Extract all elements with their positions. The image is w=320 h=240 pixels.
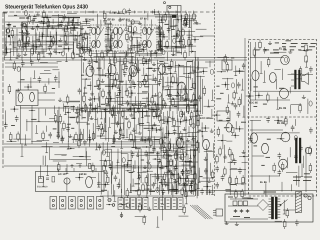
wire shielded cable right [197, 57, 199, 196]
junction (FM front end) [42, 36, 44, 38]
coil (bottom strip) [126, 203, 129, 208]
resistor (IF tubes row) [83, 94, 85, 97]
NTC block 3 [243, 201, 247, 206]
wire (output lower) [303, 156, 305, 168]
wire (mid gap) [224, 145, 226, 163]
winding ticks right [278, 198, 281, 200]
junction (preamp box inner) [79, 177, 81, 179]
resistor (converter) [164, 12, 166, 15]
wire (detector AF) [174, 61, 176, 72]
wire (AM det) [68, 108, 70, 141]
wire (FM top right) [47, 25, 80, 27]
value label (AM det) [144, 115, 150, 117]
wire (IF strip right) [158, 32, 164, 34]
value label (AM det) [144, 127, 150, 129]
wire (output upper) [289, 87, 291, 94]
wire (AF section) [143, 170, 153, 172]
value label (AF section) [129, 172, 134, 174]
wire (AM det) [103, 118, 105, 131]
ground (IF tubes row) [154, 93, 156, 96]
wire (AM det) [128, 139, 136, 141]
resistor (left detector) [42, 131, 44, 134]
wire det out h2 [38, 99, 55, 101]
wire (right of shield lower) [209, 163, 211, 176]
resistor (AM IF strip) [78, 41, 80, 44]
value label (FM front end) [13, 25, 16, 27]
ground (AM det) [69, 134, 71, 137]
svg-text:EL 86: EL 86 [260, 181, 267, 184]
wire (AM det) [68, 116, 78, 118]
output transformer Tr1 bar1 [295, 70, 297, 89]
capacitor C41 [46, 177, 49, 179]
power transformer core [271, 197, 273, 219]
wire (left low) [59, 146, 70, 148]
wire (detector AF) [169, 64, 171, 111]
resistor (detector AF) [180, 109, 182, 112]
value label (right of shield lower) [198, 129, 201, 131]
wire (IF strip mid) [109, 42, 111, 51]
wire (IF strip mid2) [131, 33, 141, 35]
value label (AF section) [159, 182, 162, 184]
wire (output lower) [305, 148, 307, 193]
junction (converter) [160, 34, 162, 36]
wire (tone stage) [162, 132, 164, 147]
output stage box [249, 40, 317, 197]
wire (AF section) [187, 155, 189, 162]
capacitor C92 [247, 209, 249, 213]
capacitor (AF section) [160, 145, 162, 147]
wire (detector AF) [165, 72, 176, 74]
wire (tone stage) [162, 191, 164, 204]
value label (output lower) [267, 138, 271, 140]
resistor (output upper) [253, 47, 255, 50]
value label (AF section) [141, 159, 144, 161]
wire (IF strip mid2) [131, 22, 133, 51]
wire (AF section) [185, 160, 192, 162]
ground (AF section) [144, 165, 146, 168]
capacitor (IF tubes row) [127, 100, 129, 102]
wire (output lower) [286, 172, 297, 174]
capacitor (detector AF) [164, 102, 166, 104]
ground (AM IF strip) [81, 26, 83, 29]
wire (IF strip mid2) [130, 45, 141, 47]
wire (right of shield upper) [204, 105, 214, 107]
ground (AM det) [133, 128, 135, 131]
value label (AM det) [67, 123, 71, 125]
wire (detector AF) [162, 77, 164, 90]
wire (FM top right) [48, 19, 50, 27]
value label (AM det) [106, 105, 111, 107]
wire (AF section) [105, 151, 183, 153]
wire (detector AF) [183, 67, 185, 75]
capacitor (tone stage) [182, 146, 184, 148]
wire (converter) [179, 30, 195, 32]
capacitor (below cans) [84, 49, 86, 51]
wire (tone stage) [197, 131, 208, 133]
capacitor (detector AF) [168, 65, 170, 67]
capacitor (detector AF) [169, 92, 171, 94]
coil (FM front end) [7, 29, 10, 34]
value label (output box) [282, 46, 286, 48]
value label (output box) [311, 43, 316, 45]
value label (IF tubes row) [83, 92, 87, 94]
wire (AF section) [109, 167, 165, 169]
switch wafer S2-1 [118, 198, 123, 210]
wire (FM top right) [52, 15, 63, 17]
resistor (mid gap) [216, 154, 218, 157]
wire (FM front end) [21, 26, 23, 41]
wire (AM det) [102, 142, 104, 153]
value label (left detector) [11, 125, 15, 127]
wire (left mid wires) [33, 70, 35, 78]
ground (AM det) [154, 122, 156, 125]
wire (AF section) [127, 154, 129, 165]
wire (IF tubes row) [158, 97, 160, 110]
value label (detector AF) [174, 106, 177, 108]
wire (detector AF) [184, 111, 186, 120]
ground (AF section) [161, 165, 163, 168]
wire (AM IF strip) [80, 23, 90, 25]
wire (FM front end) [45, 28, 47, 51]
ground (tone stage) [187, 138, 189, 141]
wire (below cans) [94, 55, 135, 57]
wire (left low) [86, 151, 88, 166]
wire (left low) [76, 163, 82, 165]
ground (IF tubes row) [89, 97, 91, 100]
capacitor (AM det) [57, 133, 59, 135]
value label (output box) [298, 49, 301, 51]
wire (left mid wires) [30, 77, 32, 88]
wire (converter) [161, 50, 180, 52]
value label (tone stage) [183, 183, 187, 185]
wire (IF tubes row) [124, 109, 132, 111]
wire (AF section) [134, 160, 136, 169]
wire (detector AF) [188, 75, 190, 114]
wire (AF section) [100, 152, 102, 195]
IF transformer can T2 [112, 25, 128, 51]
value label (AF section) [174, 189, 178, 191]
resistor (top mid row) [104, 11, 106, 14]
wire (AF section) [121, 153, 128, 155]
wire (IF tubes row) [112, 75, 114, 87]
svg-text:ESC 2019: ESC 2019 [37, 186, 48, 189]
wire (detector AF) [179, 75, 185, 77]
wire (FM top right) [32, 19, 34, 23]
wire (AM det) [83, 129, 85, 140]
junction (IF tubes row) [152, 109, 154, 111]
wire (AF section) [150, 174, 152, 195]
wire (converter) [170, 15, 172, 28]
capacitor (IF strip mid) [107, 25, 109, 27]
wire tr1 taps [291, 73, 294, 75]
tube EABC80 [129, 65, 137, 76]
wire (IF strip right) [157, 41, 163, 43]
wire (IF tubes row) [81, 58, 83, 113]
capacitor (FM front end) [37, 24, 39, 26]
wire (FM front end) [55, 28, 57, 55]
resistor (AM det) [120, 127, 122, 130]
value label (IF tubes row) [129, 86, 132, 88]
junction (IF tubes row) [131, 92, 133, 94]
tube ECC808 b [203, 139, 210, 149]
capacitor (mid gap) [239, 168, 241, 170]
wire (FM front end) [21, 48, 23, 61]
tube EL95 V1 [281, 55, 290, 64]
wire (converter) [190, 18, 192, 54]
wire (below cans) [114, 51, 116, 66]
capacitor (output upper) [264, 47, 266, 49]
wire (left low) [66, 164, 68, 174]
value label (tone stage) [160, 119, 164, 121]
wire (IF tubes row) [119, 56, 121, 66]
capacitor (left detector) [49, 132, 51, 134]
wire (AM det) [114, 117, 116, 124]
wire (AF section) [173, 147, 179, 149]
wire (AF section) [98, 173, 100, 188]
switch wafer S1-6 [97, 197, 104, 210]
wire (FM top right) [52, 19, 54, 24]
capacitor (FM top right) [32, 18, 34, 20]
ground (detector AF) [181, 95, 183, 98]
wire (converter) [171, 35, 177, 37]
wire (converter) [159, 13, 161, 26]
wire output col 1 [250, 42, 252, 112]
wire (right of shield lower) [212, 114, 220, 116]
junction (converter) [161, 19, 163, 21]
wire (below cans) [96, 53, 98, 57]
resistor (detector AF) [172, 74, 174, 77]
wire (detector AF) [165, 89, 188, 91]
wire (tone stage) [196, 191, 198, 199]
junction (output upper) [258, 95, 260, 97]
value label (AF section) [148, 152, 154, 154]
coil (IF strip right) [158, 26, 161, 31]
capacitor (output lower) [278, 153, 280, 155]
capacitor (FM front end) [48, 44, 50, 46]
junction (detector AF) [193, 105, 195, 107]
wire (FM front end) [4, 38, 6, 47]
wire (right of shield lower) [203, 177, 214, 179]
junction (FM front end) [36, 46, 38, 48]
capacitor (right of shield upper) [199, 95, 201, 97]
value label (AM det) [154, 139, 159, 141]
capacitor C43 [79, 164, 81, 168]
value label (AM det) [131, 117, 135, 119]
wire (IF tubes row) [107, 100, 154, 102]
ground (FM front end) [54, 49, 56, 52]
wire (AM det) [95, 105, 97, 120]
resistor (mid gap) [238, 97, 240, 100]
wire (IF strip mid2) [138, 42, 140, 51]
output transformer Tr2 bar2 [299, 138, 301, 163]
value label (output box) [306, 49, 312, 51]
value label (detector AF) [189, 89, 192, 91]
wire (IF strip mid2) [138, 44, 148, 46]
value label (converter) [164, 23, 169, 25]
wire (AM det) [139, 109, 141, 130]
wire (FM front end) [76, 47, 87, 49]
wire bus tick [85, 11, 87, 14]
wire (right of shield lower) [206, 144, 208, 195]
wire (FM front end) [10, 51, 47, 53]
value label (IF tubes row) [129, 62, 134, 64]
resistor (mid gap) [231, 152, 233, 155]
capacitor (AM det) [139, 101, 141, 103]
wire (IF tubes row) [99, 75, 111, 77]
coupling box B [217, 111, 230, 121]
wire (FM top right) [71, 23, 81, 25]
wire bus tick [125, 11, 127, 14]
capacitor (tone stage) [174, 128, 176, 130]
resistor (AM det) [77, 114, 79, 117]
value label (IF tubes row) [79, 55, 83, 57]
resistor (AM det) [93, 131, 95, 134]
resistor (FM front end) [11, 28, 13, 31]
capacitor (output lower) [267, 117, 269, 119]
wire (below cans) [132, 51, 134, 54]
resistor (FM front end) [38, 52, 40, 55]
wire (tone stage) [189, 161, 198, 163]
wire (mid gap) [241, 79, 243, 90]
wire (left low) [73, 155, 84, 157]
tube EBF89 [159, 64, 166, 74]
resistor (AM det) [78, 138, 80, 141]
wire section divider dashed [214, 3, 216, 196]
wire (AM det) [107, 142, 109, 156]
junction (AM det) [89, 139, 91, 141]
wire (output lower) [301, 164, 303, 177]
resistor (output upper) [299, 103, 301, 106]
ground (IF tubes row) [91, 91, 93, 94]
wire (detector AF) [184, 104, 193, 106]
wire (FM front end) [25, 30, 27, 52]
wire (detector AF) [167, 98, 180, 100]
value label (output upper) [254, 106, 258, 108]
capacitor (AM det) [97, 125, 99, 127]
value label (IF strip right) [157, 49, 163, 51]
wire lower bus C [4, 165, 195, 167]
wire (left detector) [57, 122, 59, 139]
resistor (FM front end) [52, 35, 54, 38]
wire output col 2 [255, 42, 257, 100]
wire (AM det) [89, 130, 91, 138]
wire (FM front end) [10, 48, 12, 60]
tube EM84 [86, 176, 93, 187]
wire (detector AF) [181, 85, 183, 94]
wire (tone stage) [163, 154, 171, 156]
capacitor (AF section) [114, 175, 116, 177]
wire (AF section) [152, 176, 164, 178]
value label (left mid wires) [52, 88, 55, 90]
value label (mid gap) [231, 57, 234, 59]
wire (right of shield lower) [206, 153, 208, 195]
wire output col lower [251, 120, 253, 190]
wire (mid gap) [217, 57, 229, 59]
wire (right of shield upper) [209, 61, 211, 67]
wire (IF strip right) [155, 31, 162, 33]
switch wafer S3-3 [165, 198, 170, 210]
capacitor (AF section) [118, 182, 120, 184]
wire bundle 2 [192, 205, 208, 219]
ground (IF tubes row) [132, 80, 134, 83]
wire (top mid row) [188, 14, 190, 28]
value label (FM front end) [71, 29, 76, 31]
value label (AM det) [64, 105, 70, 107]
wire (converter) [175, 24, 177, 56]
wire (AM det) [138, 118, 140, 125]
wire (mid gap) [235, 121, 237, 129]
wire (AF section) [179, 161, 191, 163]
wire (IF tubes row) [141, 109, 143, 117]
ground (AM det) [144, 104, 146, 107]
value label (FM front end) [57, 24, 61, 26]
value label (psu inner) [247, 197, 253, 199]
wire lamp drop 3 [180, 12, 182, 42]
ground (FM front end) [18, 53, 20, 56]
wire (IF tubes row) [98, 83, 150, 85]
tube driver c [251, 133, 258, 143]
value label (IF tubes row) [81, 74, 84, 76]
wire (AF section) [119, 179, 121, 188]
value label (IF tubes row) [93, 61, 97, 63]
wire (below cans) [136, 53, 157, 55]
wire (IF tubes row) [88, 109, 90, 117]
switch wafer S1-3 [69, 197, 76, 210]
wire (AM det) [140, 139, 149, 141]
wire output lower h2 [250, 175, 280, 177]
value label (output box) [264, 49, 269, 51]
wire (left low) [79, 156, 91, 158]
junction (FM front end) [24, 46, 26, 48]
wire (FM front end) [47, 36, 54, 38]
resistor (mid gap) [229, 175, 231, 178]
capacitor (output lower) [295, 154, 297, 156]
ground (FM front end) [52, 25, 54, 28]
resistor (detector AF) [171, 59, 173, 62]
coil (left mid wires) [17, 66, 20, 71]
resistor (converter) [193, 12, 195, 15]
resistor (FM front end) [31, 46, 33, 49]
wire (IF tubes row) [137, 58, 139, 73]
wire (IF tubes row) [140, 62, 150, 64]
wire (IF tubes row) [146, 68, 160, 70]
junction (mid gap) [225, 84, 227, 86]
wire (AM det) [135, 124, 137, 133]
wire (tone stage) [177, 119, 179, 194]
wire (converter) [175, 47, 186, 49]
coil (AF section) [185, 177, 188, 182]
wire (tone stage) [161, 150, 171, 152]
ballast resistor [296, 192, 302, 213]
resistor (mid gap) [224, 166, 226, 169]
wire (AM IF strip) [79, 34, 81, 42]
wire (IF tubes row) [132, 103, 138, 105]
wire (output upper) [290, 105, 292, 114]
wire (IF tubes row) [108, 70, 110, 103]
resistor (AF section) [181, 152, 183, 155]
ground (detector AF) [176, 93, 178, 96]
wire (output lower) [289, 147, 291, 157]
wire (output upper) [274, 51, 287, 53]
value label (right of shield lower) [207, 150, 212, 152]
wire (below cans) [116, 51, 118, 53]
wire (output upper) [250, 79, 252, 92]
wire (mid gap) [217, 71, 226, 73]
wire (IF strip mid) [104, 40, 112, 42]
resistor (AF section) [142, 182, 144, 185]
wire (IF strip mid) [105, 50, 112, 52]
resistor (output lower) [285, 116, 287, 119]
